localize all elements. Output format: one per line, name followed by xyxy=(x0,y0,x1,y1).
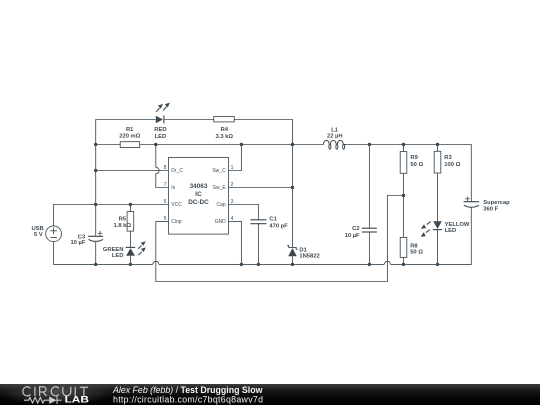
junction R3 top / rail xyxy=(436,143,439,146)
wire USB bottom xyxy=(54,242,153,265)
svg-text:LED: LED xyxy=(112,253,124,259)
svg-text:R3: R3 xyxy=(444,155,452,161)
wire bottom rail mid xyxy=(159,263,384,265)
svg-text:6: 6 xyxy=(164,199,167,205)
wire rail2 right xyxy=(346,145,471,202)
junction R5 top / VCC wire xyxy=(129,203,132,206)
LED GREEN xyxy=(126,241,146,264)
svg-text:Alex Feb (febb) / Test Druggin: Alex Feb (febb) / Test Drugging Slow xyxy=(112,385,263,395)
logo resistor zigzag and diode xyxy=(24,397,62,404)
junction Sw_C branch / rail xyxy=(240,143,243,146)
svg-text:34063: 34063 xyxy=(190,183,208,190)
svg-text:3: 3 xyxy=(231,199,234,205)
junction left rail / R1 rail xyxy=(94,143,97,146)
junction Sw_E / switch node xyxy=(291,186,294,189)
svg-text:LED: LED xyxy=(445,228,457,234)
capacitor C2 xyxy=(362,145,377,265)
svg-text:Supercap: Supercap xyxy=(483,200,510,206)
junction YELLOW LED / bottom rail xyxy=(436,263,439,266)
wire bottom rail hop at pin5 vertical xyxy=(153,261,159,264)
footer bar xyxy=(0,378,540,405)
svg-text:8: 8 xyxy=(164,165,167,171)
LED YELLOW xyxy=(421,221,442,264)
resistor R3 xyxy=(434,145,441,222)
svg-text:10 µF: 10 µF xyxy=(345,233,360,239)
svg-text:GND: GND xyxy=(215,219,227,225)
junction C1 bottom / bottom rail xyxy=(257,263,260,266)
voltage source USB body xyxy=(46,226,62,242)
svg-text:R1: R1 xyxy=(126,127,134,133)
IC 34063 box xyxy=(169,157,229,234)
junction GND wire / bottom rail xyxy=(240,263,243,266)
wire bottom rail hop at feedback vertical xyxy=(384,261,390,264)
junction R8 bottom / bottom rail xyxy=(402,263,405,266)
svg-text:IC: IC xyxy=(195,191,202,198)
resistor R4 body xyxy=(214,116,234,122)
svg-text:LED: LED xyxy=(155,134,167,140)
wire left rail lower xyxy=(95,242,97,265)
svg-text:100 Ω: 100 Ω xyxy=(444,162,460,168)
svg-text:2: 2 xyxy=(231,182,234,188)
svg-text:220 mΩ: 220 mΩ xyxy=(119,134,140,140)
LED RED xyxy=(156,103,170,124)
svg-text:10 µF: 10 µF xyxy=(70,240,85,246)
resistor R5 xyxy=(127,205,134,248)
junction GREEN LED / bottom rail xyxy=(129,263,132,266)
svg-text:http://circuitlab.com/c7bqt6q8: http://circuitlab.com/c7bqt6q8awv7d xyxy=(113,395,263,405)
svg-text:D1: D1 xyxy=(299,247,307,253)
svg-text:7: 7 xyxy=(164,182,167,188)
wire Is pin7 branch with hop over Dr_C xyxy=(156,145,169,188)
svg-text:Sw_E: Sw_E xyxy=(213,185,227,191)
svg-text:Cinp: Cinp xyxy=(171,219,182,225)
svg-text:5: 5 xyxy=(164,216,167,222)
wire Sw_C pin1 xyxy=(229,145,242,171)
svg-text:50 Ω: 50 Ω xyxy=(410,162,423,168)
svg-text:1N5822: 1N5822 xyxy=(299,254,319,260)
wire Cap pin3 to C1 xyxy=(229,205,259,220)
svg-text:VCC: VCC xyxy=(171,202,182,208)
junction left rail / bottom rail xyxy=(94,263,97,266)
capacitor Supercap polarized xyxy=(464,197,480,208)
wire GND pin4 xyxy=(229,221,242,264)
svg-text:Is: Is xyxy=(171,185,175,191)
wire top rail left xyxy=(96,120,156,145)
svg-text:RED: RED xyxy=(154,127,166,133)
svg-text:DC-DC: DC-DC xyxy=(188,199,209,206)
svg-text:1: 1 xyxy=(231,165,234,171)
svg-text:470 pF: 470 pF xyxy=(269,223,288,229)
wire Dr_C pin8 xyxy=(96,170,169,172)
resistor R8 xyxy=(400,237,407,264)
svg-text:R8: R8 xyxy=(410,243,418,249)
svg-text:Sw_C: Sw_C xyxy=(212,168,226,174)
wire Cinp pin5 feedback return xyxy=(156,196,404,282)
wire left rail upper xyxy=(95,145,97,237)
wire bottom rail right xyxy=(391,207,472,264)
wire rail2 left xyxy=(96,144,121,146)
junction C2 top / rail xyxy=(368,143,371,146)
junction C2 bottom / bottom rail xyxy=(368,263,371,266)
inductor L1 coil xyxy=(323,140,346,149)
svg-text:4: 4 xyxy=(231,216,234,222)
junction D1 anode / bottom rail xyxy=(291,263,294,266)
wire top rail right xyxy=(234,120,292,145)
junction switch node / rail xyxy=(291,143,294,146)
wire Sw_E pin2 xyxy=(229,187,293,189)
svg-text:50 Ω: 50 Ω xyxy=(410,249,423,255)
wire VCC pin6 from USB xyxy=(54,205,169,226)
junction left rail / Dr_C wire xyxy=(94,169,97,172)
svg-text:Dr_C: Dr_C xyxy=(171,168,183,174)
svg-text:Cap: Cap xyxy=(217,202,226,208)
junction R9-R8 feedback node xyxy=(402,194,405,197)
resistor R1 body xyxy=(120,142,140,148)
svg-text:C1: C1 xyxy=(269,216,277,222)
svg-text:R9: R9 xyxy=(410,155,418,161)
capacitor C1 xyxy=(250,220,266,265)
diode D1 schottky xyxy=(287,145,298,265)
junction left rail / VCC wire xyxy=(94,203,97,206)
svg-text:USB: USB xyxy=(31,226,43,232)
junction dots xyxy=(94,143,439,266)
svg-text:R4: R4 xyxy=(221,127,229,133)
svg-text:5 V: 5 V xyxy=(34,232,43,238)
svg-text:22 µH: 22 µH xyxy=(327,133,343,139)
resistor R9 xyxy=(400,145,407,238)
capacitor C3 polarized xyxy=(88,231,103,242)
wire rail2 mid xyxy=(140,144,324,146)
svg-text:C2: C2 xyxy=(352,226,359,232)
junction R9 top / rail xyxy=(402,143,405,146)
svg-text:3.3 kΩ: 3.3 kΩ xyxy=(216,134,234,140)
svg-text:LAB: LAB xyxy=(65,395,89,405)
wire top rail mid xyxy=(164,119,214,121)
logo CIRCUIT lettering xyxy=(23,387,88,396)
svg-text:R5: R5 xyxy=(119,217,127,223)
svg-text:360 F: 360 F xyxy=(483,206,498,212)
svg-text:1.8 kΩ: 1.8 kΩ xyxy=(114,223,132,229)
junction Is branch / R1 rail xyxy=(154,143,157,146)
